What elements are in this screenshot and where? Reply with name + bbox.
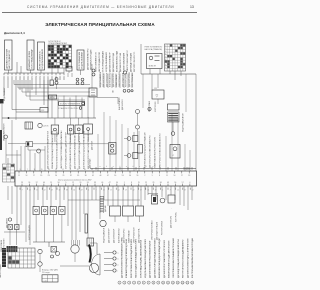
svg-text:33: 33 [94,182,96,184]
svg-text:17: 17 [181,175,183,177]
svg-text:17: 17 [184,189,186,191]
svg-text:ДАТЧИКСК: ДАТЧИКСК [91,140,94,150]
svg-text:28: 28 [35,76,37,78]
svg-text:35: 35 [77,169,79,171]
svg-text:а: а [118,252,119,254]
svg-text:МОДУЛЬЗАЖИГАНИЯ: МОДУЛЬЗАЖИГАНИЯ [41,49,44,69]
svg-text:36: 36 [160,182,162,184]
svg-text:27: 27 [31,76,33,78]
svg-text:НАСОСПОДАЧИТОПЛИВАДАТЧИККИСЛОР: НАСОСПОДАЧИТОПЛИВАДАТЧИККИСЛОРО [135,238,138,278]
svg-text:50: 50 [174,182,176,184]
svg-text:ФОРСУНКАЦИЛИНДРА1-4ДАТЧИКТЕМПЕ: ФОРСУНКАЦИЛИНДРА1-4ДАТЧИКТЕМПЕР [65,131,68,169]
svg-text:7: 7 [27,169,28,171]
svg-text:КЗАМКУЗАЖИГАНИЯ15ДАТЧИКПОЛОЖЕН: КЗАМКУЗАЖИГАНИЯ15ДАТЧИКПОЛОЖЕН [168,240,171,278]
svg-text:47: 47 [155,189,157,191]
svg-text:→: → [170,208,172,210]
svg-text:14: 14 [182,283,184,285]
svg-text:МОДУЛЬЗАЖИГАНИЯ: МОДУЛЬЗАЖИГАНИЯ [105,52,108,72]
svg-text:22: 22 [145,182,147,184]
svg-text:2: 2 [88,189,89,191]
svg-text:51: 51 [50,182,52,184]
svg-text:ДАТЧИКПОЛОЖЕНИЯКОЛЕНВАЛАФОРСУН: ДАТЧИКПОЛОЖЕНИЯКОЛЕНВАЛАФОРСУНКА [121,237,124,278]
svg-text:20: 20 [43,76,45,78]
svg-text:НАСОСПОДАЧИ: НАСОСПОДАЧИ [0,263,2,278]
svg-text:ЭЛЕКТРОБЕНЗОНАСОС: ЭЛЕКТРОБЕНЗОНАСОС [126,49,129,72]
svg-text:МОДУЛЬЗАЖИГА: МОДУЛЬЗАЖИГА [99,71,102,87]
svg-text:15: 15 [186,283,188,285]
svg-text:17: 17 [110,189,112,191]
svg-text:25: 25 [63,76,65,78]
svg-text:44: 44 [99,175,101,177]
svg-text:б: б [146,166,147,168]
svg-text:▽: ▽ [156,94,159,98]
svg-text:КЗАМКУЗАЖИГАНИЯ15РЕЛЕТОПЛИ: КЗАМКУЗАЖИГАНИЯ15РЕЛЕТОПЛИ [154,136,157,168]
svg-text:г: г [118,270,119,272]
svg-text:а: а [152,166,153,168]
svg-text:ДАТЧИКПОЛОЖЕНИЯ: ДАТЧИКПОЛОЖЕНИЯ [5,48,8,68]
svg-text:59: 59 [136,175,138,177]
svg-text:54: 54 [116,182,118,184]
svg-text:РЕГУЛЯТОРХОЛ: РЕГУЛЯТОРХОЛ [126,72,128,87]
svg-text:12: 12 [72,182,74,184]
svg-text:24: 24 [19,76,21,78]
svg-text:МОДУЛЬЗАЖИГАНИЯ: МОДУЛЬЗАЖИГАНИЯ [182,113,185,132]
svg-text:1: 1 [119,283,120,285]
svg-text:ФОРСУНКАЦИЛИНДР: ФОРСУНКАЦИЛИНДР [31,48,34,68]
svg-text:8: 8 [153,283,154,285]
svg-text:C22: C22 [41,110,44,112]
svg-text:КЗАМКУЗАЖИГАНИЯ: КЗАМКУЗАЖИГАНИЯ [123,52,126,72]
svg-text:12: 12 [177,189,179,191]
svg-text:4: 4 [189,182,190,184]
svg-text:C11: C11 [154,88,157,90]
svg-text:30: 30 [28,182,30,184]
svg-text:20: 20 [188,175,190,177]
svg-text:50: 50 [114,175,116,177]
svg-text:4: 4 [165,54,166,56]
svg-text:К БЛОКУ УПРАВЛЕНИЯ: К БЛОКУ УПРАВЛЕНИЯ [60,103,81,106]
svg-text:7: 7 [170,189,171,191]
svg-text:20: 20 [40,175,42,177]
svg-text:РЕГУЛЯТОРХОЛ: РЕГУЛЯТОРХОЛ [162,220,164,235]
svg-text:КОНТРОЛЬНАЯЛАМПАCHECKНАСОСПОДА: КОНТРОЛЬНАЯЛАМПАCHECKНАСОСПОДАЧ [191,238,194,278]
svg-text:58: 58 [58,182,60,184]
svg-text:ВЫКЛЮЧАТЕЛЬК: ВЫКЛЮЧАТЕЛЬК [118,227,121,243]
svg-text:8: 8 [159,175,160,177]
svg-text:ДАТЧИКПОЛОЖЕ: ДАТЧИКПОЛОЖЕ [128,71,131,87]
svg-text:21: 21 [7,76,9,78]
svg-text:ДАТЧИКТЕМПЕРАТУРЫОЖВЫКЛЮЧАТЕЛЬ: ДАТЧИКТЕМПЕРАТУРЫОЖВЫКЛЮЧАТЕЛЬК [74,130,77,169]
svg-text:5: 5 [152,175,153,177]
svg-text:15: 15 [41,169,43,171]
svg-text:11: 11 [34,169,36,171]
svg-text:37: 37 [140,189,142,191]
svg-text:7: 7 [22,189,23,191]
svg-text:37: 37 [36,182,38,184]
svg-text:16: 16 [191,283,193,285]
svg-text:4: 4 [134,283,135,285]
svg-text:19: 19 [48,169,50,171]
svg-text:РЕЛЕТОПЛИВНОГОН: РЕЛЕТОПЛИВНОГОН [96,52,98,72]
svg-text:21: 21 [47,76,49,78]
svg-text:43: 43 [167,182,169,184]
svg-text:ДАТЧИКТЕМПЕРАТУРЫОЖКЗАМКУЗАЖИГ: ДАТЧИКТЕМПЕРАТУРЫОЖКЗАМКУЗАЖИГ [149,240,152,278]
svg-text:ЭЛЕКТРОБЕНЗОНАСО: ЭЛЕКТРОБЕНЗОНАСО [151,220,154,240]
svg-text:ПРЕДОХРАНИТЕЛЕЙ: ПРЕДОХРАНИТЕЛЕЙ [49,42,68,45]
svg-text:5: 5 [65,182,66,184]
svg-text:ДАТЧИКТЕМПЕРАТУР: ДАТЧИКТЕМПЕРАТУР [109,52,112,72]
svg-text:ДАТЧИКСКОРОСТИА: ДАТЧИКСКОРОСТИА [119,52,122,72]
svg-text:МОДУЛЬЗАЖИГ: МОДУЛЬЗАЖИГ [3,87,6,101]
svg-text:КЗАМКУЗАЖИГ: КЗАМКУЗАЖИГ [115,74,118,87]
svg-text:53: 53 [122,175,124,177]
svg-text:9: 9 [165,67,166,69]
svg-text:б: б [159,166,160,168]
svg-text:ВЫКЛЮЧАТЕЛЬК: ВЫКЛЮЧАТЕЛЬК [109,71,112,87]
svg-text:12: 12 [103,189,105,191]
svg-text:38: 38 [85,175,87,177]
svg-text:ДАТЧИКСКОРОС: ДАТЧИКСКОРОС [112,72,115,87]
svg-text:КОНТРОЛЬ: КОНТРОЛЬ [176,211,178,222]
svg-text:40: 40 [101,182,103,184]
svg-text:Ф: Ф [112,91,114,94]
svg-text:22: 22 [51,76,53,78]
svg-text:20: 20 [3,76,5,78]
svg-text:39: 39 [84,169,86,171]
svg-text:11: 11 [166,175,168,177]
svg-text:22: 22 [118,189,120,191]
svg-text:6: 6 [143,283,144,285]
svg-text:ФОРСУНКАЦИЛИН: ФОРСУНКАЦИЛИН [78,51,81,69]
svg-text:12: 12 [29,189,31,191]
svg-text:МОДУЛЬЗАЖИГАН: МОДУЛЬЗАЖИГАН [81,51,84,69]
svg-text:а б в: а б в [44,280,48,282]
svg-text:8: 8 [131,182,132,184]
svg-text:27: 27 [125,189,127,191]
svg-text:в: в [118,264,119,266]
svg-text:ЭЛЕКТРОБЕНЗОН: ЭЛЕКТРОБЕНЗОН [119,71,121,87]
svg-text:3: 3 [20,169,21,171]
svg-text:43: 43 [91,169,93,171]
svg-text:22: 22 [44,189,46,191]
svg-text:ДАТЧИККИСЛОРОДАЛЯМБДАЭЛЕКТРОБЕ: ДАТЧИККИСЛОРОДАЛЯМБДАЭЛЕКТРОБЕНЗ [153,237,156,278]
svg-text:КЛАПАНПРОДУВКИАДСОРБЕРАМОДУЛЬЗ: КЛАПАНПРОДУВКИАДСОРБЕРАМОДУЛЬЗА [125,239,128,278]
svg-text:23: 23 [48,175,50,177]
svg-text:26: 26 [55,175,57,177]
svg-text:56: 56 [129,175,131,177]
svg-text:14: 14 [25,175,27,177]
svg-text:ДАТЧИК: ДАТЧИК [104,205,107,212]
svg-text:5: 5 [138,283,139,285]
svg-text:1: 1 [124,182,125,184]
svg-text:МОДУЛЬЗАЖИГА: МОДУЛЬЗАЖИГА [103,227,106,243]
svg-text:МОДУЛЬЗАЖИГАНИЯСВЕЧИДАТЧИКСКОР: МОДУЛЬЗАЖИГАНИЯСВЕЧИДАТЧИКСКОРО [144,238,147,278]
svg-text:ФОРСУНКАЦИЛИ: ФОРСУНКАЦИЛИ [28,224,31,240]
svg-text:29: 29 [62,175,64,177]
svg-text:РЕГУЛЯТОРХОЛОСТОГОХОДАКЛАПАНПР: РЕГУЛЯТОРХОЛОСТОГОХОДАКЛАПАНПРО [182,239,185,278]
svg-text:19: 19 [79,182,81,184]
svg-text:РВ сзади: РВ сзади [42,272,50,274]
svg-text:25: 25 [23,76,25,78]
svg-text:ЭЛЕКТРОБЕНЗОНАСОСБАКАНАСОСПО: ЭЛЕКТРОБЕНЗОНАСОСБАКАНАСОСПО [159,133,162,168]
svg-text:57: 57 [182,182,184,184]
svg-text:б: б [119,166,120,168]
svg-text:37: 37 [66,189,68,191]
svg-text:а: а [126,166,127,168]
svg-text:23: 23 [21,182,23,184]
svg-text:КЛАПАНПРОДУВКИАДСОРБЕРАНАСОСПО: КЛАПАНПРОДУВКИАДСОРБЕРАНАСОСПОД [51,130,54,169]
svg-text:44: 44 [43,182,45,184]
svg-text:14: 14 [173,175,175,177]
svg-text:б: б [106,166,107,168]
svg-text:26: 26 [87,182,89,184]
svg-text:ДАТЧИКТЕМПЕР: ДАТЧИКТЕМПЕР [102,72,105,87]
svg-text:3: 3 [165,51,166,53]
svg-text:ДАТЧИКДЕТОНАЦИИ: ДАТЧИКДЕТОНАЦИИ [156,221,159,240]
svg-text:12: 12 [172,283,174,285]
svg-text:ДАТЧИКТЕМПЕРАТУРЫ: ДАТЧИКТЕМПЕРАТУРЫ [87,48,90,70]
svg-text:КОРПУСОМ: КОРПУСОМ [155,101,157,112]
svg-text:ЭЛЕКТРОБЕНЗОНАСОСБАКАКОНТРОЛЬН: ЭЛЕКТРОБЕНЗОНАСОСБАКАКОНТРОЛЬНАЯ [172,237,175,278]
svg-text:47: 47 [109,182,111,184]
svg-text:ДАТЧИКДЕТОНАЦИИБЛОКАДАТЧИКПОЛО: ДАТЧИКДЕТОНАЦИИБЛОКАДАТЧИКПОЛОЖ [177,239,180,278]
svg-text:2: 2 [165,48,166,50]
svg-text:13: 13 [177,283,179,285]
svg-text:35: 35 [77,175,79,177]
svg-text:2: 2 [124,283,125,285]
svg-text:РЕЛЕТОПЛИВНОГО: РЕЛЕТОПЛИВНОГО [39,50,41,69]
svg-text:5: 5 [165,56,166,58]
svg-text:7: 7 [148,283,149,285]
svg-text:НАСОСА (ГЛАВНОЕ): НАСОСА (ГЛАВНОЕ) [145,48,163,51]
svg-text:ДАТЧИКСКОРОСТИАВТОРЕГУЛЯТОРХОЛ: ДАТЧИКСКОРОСТИАВТОРЕГУЛЯТОРХОЛО [163,239,166,278]
svg-text:22: 22 [192,189,194,191]
svg-text:НАСОСПОДАЧИТОП: НАСОСПОДАЧИТОП [8,50,11,69]
svg-text:ДАТЧИКДЕ: ДАТЧИКДЕ [89,158,92,168]
svg-text:ДАТЧИКПОЛОЖЕНИЯКОЛЕНВАЛАРЕЛЕТО: ДАТЧИКПОЛОЖЕНИЯКОЛЕНВАЛАРЕЛЕТОП [47,130,50,169]
svg-text:2: 2 [144,175,145,177]
svg-text:47: 47 [107,175,109,177]
svg-text:27: 27 [62,169,64,171]
svg-text:1: 1 [165,46,166,48]
svg-text:КЛАПАНПРОДУВКИ: КЛАПАНПРОДУВКИ [28,50,31,68]
svg-text:42: 42 [73,189,75,191]
svg-text:ДАТЧИКПОЛО: ДАТЧИКПОЛО [170,215,173,228]
svg-text:РЕГУЛЯТОРХОЛОСТО: РЕГУЛЯТОРХОЛОСТО [134,51,136,72]
svg-text:7: 7 [96,189,97,191]
svg-text:23: 23 [15,76,17,78]
svg-text:32: 32 [59,189,61,191]
svg-text:ДТОЖ: ДТОЖ [44,126,49,128]
svg-text:9: 9 [158,283,159,285]
svg-text:30 85 87: 30 85 87 [149,66,156,68]
svg-text:а: а [100,166,101,168]
svg-text:К ПАНЕЛИ ПРИБОРОВ: К ПАНЕЛИ ПРИБОРОВ [58,107,78,110]
svg-text:32: 32 [133,189,135,191]
svg-text:ДАТЧИКДЕТОНАЦИИ: ДАТЧИКДЕТОНАЦИИ [130,52,133,72]
svg-text:ДАТЧИКСКО: ДАТЧИКСКО [121,99,124,110]
svg-text:НАСОСПОДАЧИТОПЛИВАМОДУЛЬЗАЖИГА: НАСОСПОДАЧИТОПЛИВАМОДУЛЬЗАЖИГАН [60,130,63,169]
svg-text:ДАТЧИКТЕМ: ДАТЧИКТЕМ [5,217,8,228]
svg-text:ДАТЧИККИСЛОР: ДАТЧИККИСЛОР [113,228,116,243]
svg-text:КОНТРОЛЬНАЯЛ: КОНТРОЛЬНАЯЛ [131,71,134,87]
svg-text:41: 41 [92,175,94,177]
svg-text:11: 11 [167,283,169,285]
svg-text:ВЫКЛЮЧАТЕЛЬКОНДИЦИОНЕРАДАТЧИК: ВЫКЛЮЧАТЕЛЬКОНДИЦИОНЕРАДАТЧИК [144,131,147,168]
svg-text:22: 22 [11,76,13,78]
svg-text:ДАТЧИКСКОРОСТИАВТОКЛАПАНПРО: ДАТЧИКСКОРОСТИАВТОКЛАПАНПРО [149,135,152,168]
svg-text:РЕЛЕТОПЛИВНОГОНАСОСАФОРСУНКАЦИ: РЕЛЕТОПЛИВНОГОНАСОСАФОРСУНКАЦИЛ [56,130,59,169]
svg-text:а: а [113,166,114,168]
svg-text:17: 17 [33,175,35,177]
svg-text:3: 3 [129,283,130,285]
svg-text:ДАТЧИККИСЛОРОДА: ДАТЧИККИСЛОРОДА [112,52,115,72]
svg-text:29: 29 [152,182,154,184]
svg-text:11: 11 [18,175,20,177]
svg-text:29: 29 [39,76,41,78]
svg-text:27: 27 [51,189,53,191]
svg-text:42: 42 [147,189,149,191]
svg-text:32: 32 [70,175,72,177]
svg-text:РЕЛЕТОПЛИВНОГОНАСОСАДАТЧИКТЕМП: РЕЛЕТОПЛИВНОГОНАСОСАДАТЧИКТЕМПЕ [130,238,133,278]
svg-text:ФОРСУНКАЦИЛИНДРА1-4ВЫКЛЮЧАТЕЛЬ: ФОРСУНКАЦИЛИНДРА1-4ВЫКЛЮЧАТЕЛЬК [139,239,142,278]
svg-text:ВЫКЛЮЧАТЕЛ: ВЫКЛЮЧАТЕЛ [118,97,121,110]
svg-text:ДАТЧИКТЕМПЕР: ДАТЧИКТЕМПЕР [108,228,111,243]
svg-text:47: 47 [81,189,83,191]
svg-text:МОДУЛЬЗАЖИГАНИЯСВЕЧИДАТЧИККИСЛ: МОДУЛЬЗАЖИГАНИЯСВЕЧИДАТЧИККИСЛО [69,130,72,169]
svg-text:26: 26 [27,76,29,78]
svg-text:10: 10 [162,283,164,285]
svg-text:15: 15 [138,182,140,184]
svg-text:б: б [133,166,134,168]
svg-text:ФОРСУНКАЦИЛИНДРА: ФОРСУНКАЦИЛИНДРА [102,50,105,72]
svg-text:б: б [118,258,119,260]
svg-text:24: 24 [59,76,61,78]
svg-text:ДАТЧИКПОЛОЖЕНИЯДРОССЕЛЯРЕЛЕТОП: ДАТЧИКПОЛОЖЕНИЯДРОССЕЛЯРЕЛЕТОПЛ [186,238,189,278]
svg-text:ВЫКЛЮЧАТЕЛЬКОНДИ: ВЫКЛЮЧАТЕЛЬКОНДИ [116,50,119,72]
svg-text:НАСОСПОДАЧИТОПЛ: НАСОСПОДАЧИТОПЛ [98,52,101,72]
svg-text:23: 23 [55,169,57,171]
svg-text:а: а [139,166,140,168]
svg-text:ВЫКЛЮЧАТЕЛЬКОНДИЦИОНЕРАКЗАМКУЗ: ВЫКЛЮЧАТЕЛЬКОНДИЦИОНЕРАКЗАМКУЗА [83,130,86,169]
svg-text:17: 17 [36,189,38,191]
svg-text:ДИОД: ДИОД [49,97,55,99]
svg-text:31: 31 [70,169,72,171]
svg-text:ЭБУ: ЭБУ [186,169,191,171]
svg-text:8: 8 [165,64,166,66]
svg-text:ДАТЧИККИСЛОРОДАЛЯМБДАДАТЧИКСКО: ДАТЧИККИСЛОРОДАЛЯМБДАДАТЧИКСКОР [78,131,81,169]
svg-text:Часть указанных компонентов на: Часть указанных компонентов на ЭБУ [58,180,92,182]
svg-text:2: 2 [162,189,163,191]
svg-text:ВЫКЛЮЧАТЕЛЬКОНДИЦИОНЕРАДАТЧИКД: ВЫКЛЮЧАТЕЛЬКОНДИЦИОНЕРАДАТЧИКДЕТ [158,237,161,278]
svg-text:С: С [173,155,175,157]
